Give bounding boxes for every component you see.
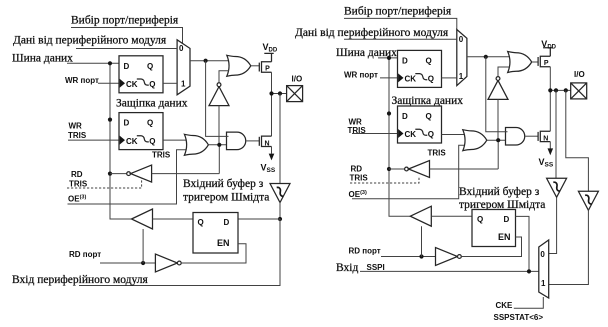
- I/O pad: [287, 86, 303, 102]
- svg-text:WR порт: WR порт: [65, 76, 99, 85]
- wire: data bus vertical (right): [389, 58, 410, 216]
- node: G2 output junction: [217, 143, 221, 147]
- OR gate G1: [227, 55, 251, 76]
- wire: pin to Schmitt trigger U5: [279, 94, 281, 184]
- wire: AND gate G13 output to N gate (right): [525, 135, 538, 137]
- wire: peripheral data out to mux M1 input 0: [76, 48, 177, 50]
- inverter U3: [209, 83, 229, 106]
- wire: driver U14 enable: [350, 178, 419, 184]
- wire: OR gate G11 output to P gate (right): [532, 61, 538, 63]
- wire: Schmitt U5 output down: [279, 203, 281, 220]
- svg-text:WR порт: WR порт: [344, 70, 378, 79]
- svg-text:I/O: I/O: [292, 74, 303, 83]
- svg-text:WR: WR: [69, 122, 83, 131]
- wire: OE to OR gate G12 input (right): [352, 145, 465, 199]
- pin latch U7: [193, 213, 238, 254]
- node: bus/data-latch junction (right): [387, 56, 391, 60]
- tri-state driver U4: [127, 165, 152, 182]
- node: bus/TRIS-latch junction: [108, 118, 112, 122]
- wire: inverter U13 input: [497, 99, 499, 140]
- wire: WR TRIS clock: [68, 139, 119, 141]
- node: P/N drain junction (right): [548, 88, 552, 92]
- wire: data bus vertical: [110, 63, 132, 219]
- wire: mux data down to AND gate G13: [486, 57, 508, 132]
- svg-text:Дані від периферійного модуля: Дані від периферійного модуля: [295, 27, 449, 39]
- wire: port/peripheral select to mux M2: [344, 18, 457, 29]
- node: P/N drain junction: [269, 91, 273, 95]
- svg-text:Вхід периферійного модуля: Вхід периферійного модуля: [12, 274, 148, 286]
- svg-text:CKE: CKE: [496, 301, 514, 310]
- svg-text:Вхідний буфер з: Вхідний буфер з: [183, 178, 264, 190]
- svg-text:тригером Шмідта: тригером Шмідта: [183, 191, 269, 203]
- wire: driver U14 input from OR gate G12 output: [430, 140, 499, 169]
- inverter U19: [436, 248, 462, 266]
- svg-text:TRIS: TRIS: [350, 173, 369, 182]
- wire: driver U4 enable: [67, 179, 142, 189]
- wire: mux M1 output to OR gate G1: [190, 60, 230, 62]
- svg-text:Шина даних: Шина даних: [12, 52, 73, 64]
- svg-text:EN: EN: [498, 232, 511, 242]
- TRIS latch U2: [119, 113, 163, 150]
- wire: I/O node to pad (right): [550, 89, 570, 91]
- svg-text:Q: Q: [477, 215, 483, 224]
- I/O pad (right): [571, 83, 587, 99]
- svg-text:Вхід: Вхід: [336, 262, 358, 274]
- transistor Q12 N: [538, 131, 550, 142]
- node: RD port junction: [141, 261, 145, 265]
- wire: port/peripheral select to mux M1: [71, 28, 183, 44]
- node: G12 output junction: [496, 138, 500, 142]
- mux M2: [457, 30, 467, 86]
- node: bus/TRIS-latch junction (right): [387, 111, 391, 115]
- wire: data bus to data latch D: [67, 62, 119, 64]
- svg-text:Q: Q: [198, 218, 204, 227]
- transistor Q1 P: [259, 53, 273, 72]
- wire: pin node to latch D: [238, 218, 280, 220]
- wire: driver U4 input from OR gate G2 output: [152, 145, 220, 174]
- svg-text:I/O: I/O: [574, 70, 585, 79]
- transistor Q2 N: [259, 136, 271, 147]
- wire: inverter U8 output to latch EN: [181, 244, 246, 263]
- wire: RD port to inverter U19: [381, 256, 436, 258]
- wire: Schmitt U15 output to mux M3 input 0: [549, 197, 557, 253]
- svg-text:1: 1: [459, 72, 464, 81]
- node: SSPI line junction: [527, 269, 531, 273]
- mux M1: [177, 40, 190, 95]
- svg-text:TRIS: TRIS: [152, 151, 171, 160]
- svg-text:Защіпка даних: Защіпка даних: [392, 95, 464, 107]
- OR gate G12: [463, 130, 487, 151]
- svg-text:SSPSTAT<6>: SSPSTAT<6>: [494, 313, 544, 322]
- wire: WR port clock: [98, 82, 119, 84]
- wire: RD port to inverter U8: [100, 262, 155, 264]
- svg-text:Вибір порт/периферія: Вибір порт/периферія: [344, 5, 452, 17]
- wire: RD port to driver U17 enable: [421, 226, 423, 256]
- node: bus/RD-TRIS junction (right): [387, 167, 391, 171]
- wire: SSPI input line to mux M3 output: [360, 270, 539, 272]
- tri-state driver U14: [405, 161, 430, 178]
- Schmitt trigger U15: [547, 178, 567, 197]
- node: Schmitt U15 tap: [554, 88, 558, 92]
- tri-state driver U17: [410, 206, 431, 226]
- svg-text:Защіпка даних: Защіпка даних: [116, 97, 188, 109]
- wire: N source to Vss: [271, 147, 273, 154]
- wire: CKE select to mux M3: [514, 297, 544, 308]
- node: mux output junction: [204, 59, 208, 63]
- svg-text:RD: RD: [71, 170, 83, 179]
- node: pin data node: [278, 217, 282, 221]
- svg-text:TRIS: TRIS: [69, 180, 88, 189]
- svg-text:0: 0: [540, 250, 545, 259]
- svg-text:SSPI: SSPI: [367, 263, 385, 272]
- inverter U8: [155, 254, 181, 272]
- wire: WR TRIS clock (right): [352, 133, 398, 135]
- wire: I/O node down to N drain (right): [549, 90, 551, 131]
- wire: latch D to mux M3 output line: [516, 216, 530, 271]
- wire: data latch Q to mux M1 input 1: [163, 82, 177, 84]
- wire: OR gate G1 output to P gate: [251, 65, 259, 67]
- wire: P drain to I/O node (right): [549, 67, 551, 91]
- svg-text:0: 0: [179, 44, 184, 53]
- svg-text:RD: RD: [351, 164, 363, 173]
- wire: mux M2 output to OR gate G11: [467, 56, 511, 58]
- Schmitt trigger U16: [578, 191, 598, 210]
- wire: P drain to I/O node: [271, 72, 273, 93]
- node: pin input tap: [278, 91, 282, 95]
- wire: peripheral data out to mux M2 input 0: [344, 38, 457, 40]
- wire: mux data down to AND gate G3: [206, 61, 229, 137]
- wire: RD TRIS to driver U14 output bubble: [389, 168, 405, 170]
- inverter U13: [488, 77, 508, 100]
- TRIS latch U12: [398, 106, 442, 143]
- svg-text:RD порт: RD порт: [349, 247, 381, 256]
- OR gate G2: [184, 134, 208, 155]
- svg-text:Вибір порт/периферія: Вибір порт/периферія: [71, 15, 179, 27]
- wire: WR port clock (right): [380, 77, 398, 79]
- wire: TRIS latch Q to OR gate G12: [442, 134, 466, 136]
- OR gate G11: [508, 52, 532, 73]
- node: mux output junction (right): [484, 55, 488, 59]
- data latch U11: [398, 50, 442, 87]
- wire: I/O node down to N drain: [271, 94, 273, 137]
- node: bus/RD-TRIS junction: [108, 172, 112, 176]
- svg-text:Вхідний буфер з: Вхідний буфер з: [459, 186, 540, 198]
- svg-text:D: D: [504, 215, 510, 224]
- wire: pin to Schmitt trigger U15: [555, 90, 557, 178]
- tri-state driver U6: [132, 209, 153, 229]
- svg-text:EN: EN: [217, 238, 230, 248]
- svg-text:RD порт: RD порт: [69, 250, 101, 259]
- data latch U1: [119, 56, 163, 93]
- mux M3: [539, 240, 549, 298]
- wire: OR gate G2 output to AND gate G3: [208, 144, 228, 146]
- wire: TRIS latch Q to OR gate G2: [163, 139, 187, 141]
- wire: pin to Schmitt trigger U16: [566, 90, 589, 191]
- ground Vss arrow: [269, 154, 275, 161]
- Schmitt trigger U5: [270, 184, 290, 203]
- svg-text:TRIS: TRIS: [68, 131, 87, 140]
- wire: latch Q to driver U6 input: [153, 218, 194, 220]
- wire: RD port to driver U6 enable: [142, 229, 144, 263]
- ground Vss arrow (right): [548, 148, 554, 155]
- wire: RD TRIS to driver U4 output bubble: [110, 173, 127, 175]
- wire: OR gate G12 output to AND gate G13: [487, 139, 508, 141]
- wire: inverter U3 input: [218, 106, 220, 145]
- wire: pin node to peripheral module input: [79, 219, 280, 286]
- svg-text:1: 1: [181, 79, 186, 88]
- svg-text:D: D: [224, 218, 230, 227]
- wire: data bus to data latch D (right): [378, 57, 398, 59]
- wire: inverter U3 output to OR gate G1: [219, 71, 229, 83]
- wire: AND gate G3 output to N gate: [246, 140, 259, 142]
- wire: inverter U19 output to latch EN (right): [461, 237, 521, 257]
- pin latch U18: [472, 210, 516, 247]
- wire: inverter U13 output to OR gate G11: [498, 67, 510, 77]
- svg-text:TRIS: TRIS: [428, 148, 447, 157]
- wire: OE to OR gate G2 input: [68, 150, 188, 204]
- svg-text:Дані від периферійного модуля: Дані від периферійного модуля: [13, 34, 167, 46]
- transistor Q11 P: [538, 48, 552, 67]
- svg-text:1: 1: [541, 279, 546, 288]
- wire: latch Q to driver U17 input (right): [431, 215, 472, 217]
- AND gate G3: [227, 132, 246, 150]
- wire: Schmitt U16 output to mux M3 input 1: [549, 209, 589, 284]
- wire: N source to Vss (right): [549, 142, 551, 149]
- wire: data latch Q to mux M2 input 1: [442, 77, 457, 79]
- node: Schmitt U16 tap: [564, 88, 568, 92]
- node: bus/data-latch junction: [108, 61, 112, 65]
- svg-text:0: 0: [459, 35, 464, 44]
- AND gate G13: [506, 127, 525, 145]
- node: RD port junction (right): [419, 254, 423, 258]
- wire: I/O node to pad: [272, 93, 287, 95]
